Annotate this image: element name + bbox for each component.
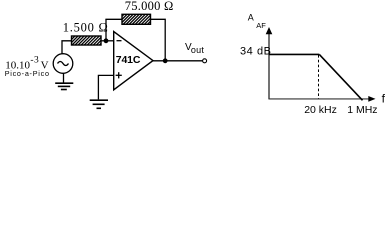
wire R1 to op-amp inverting input: [101, 40, 114, 42]
dashed line at 20 kHz: [318, 55, 320, 99]
wire source bottom to ground: [63, 73, 65, 82]
resistor R2: [122, 14, 151, 24]
label Vout: [185, 42, 204, 55]
svg-text:34 dB: 34 dB: [240, 46, 272, 58]
op-amp U1 741C: [114, 32, 153, 90]
wire op-amp noninverting input to ground: [98, 75, 113, 99]
svg-text:20 kHz: 20 kHz: [304, 104, 337, 116]
node junction at output: [163, 58, 168, 63]
ground at source: [55, 83, 73, 89]
svg-text:Pico-a-Pico: Pico-a-Pico: [5, 69, 50, 78]
svg-text:1.500 Ω: 1.500 Ω: [63, 21, 109, 35]
resistor R1: [72, 36, 102, 45]
wire junction up to feedback rail: [105, 19, 107, 41]
svg-text:1 MHz: 1 MHz: [347, 104, 377, 116]
svg-text:AF: AF: [256, 21, 266, 30]
terminal Vout open circle: [203, 59, 207, 63]
graph flat gain line: [270, 53, 320, 55]
wire source top to R1: [62, 41, 72, 54]
graph x-axis: [269, 96, 376, 102]
ground at op-amp + input: [90, 100, 108, 108]
wire R2 to output corner: [151, 19, 166, 61]
source V1 AC sine: [53, 54, 73, 74]
svg-text:75.000 Ω: 75.000 Ω: [125, 0, 174, 13]
wire feedback rail left to R2: [105, 18, 122, 20]
graph y-axis: [266, 27, 273, 99]
svg-text:741C: 741C: [116, 54, 141, 66]
label source value 10.10^-3 V: [5, 55, 48, 71]
svg-text:out: out: [191, 45, 205, 55]
wire op-amp output: [153, 60, 202, 62]
node junction at inverting input: [104, 38, 109, 43]
graph rolloff slope line: [319, 54, 362, 100]
svg-text:A: A: [248, 13, 254, 23]
svg-text:-3: -3: [30, 55, 39, 65]
